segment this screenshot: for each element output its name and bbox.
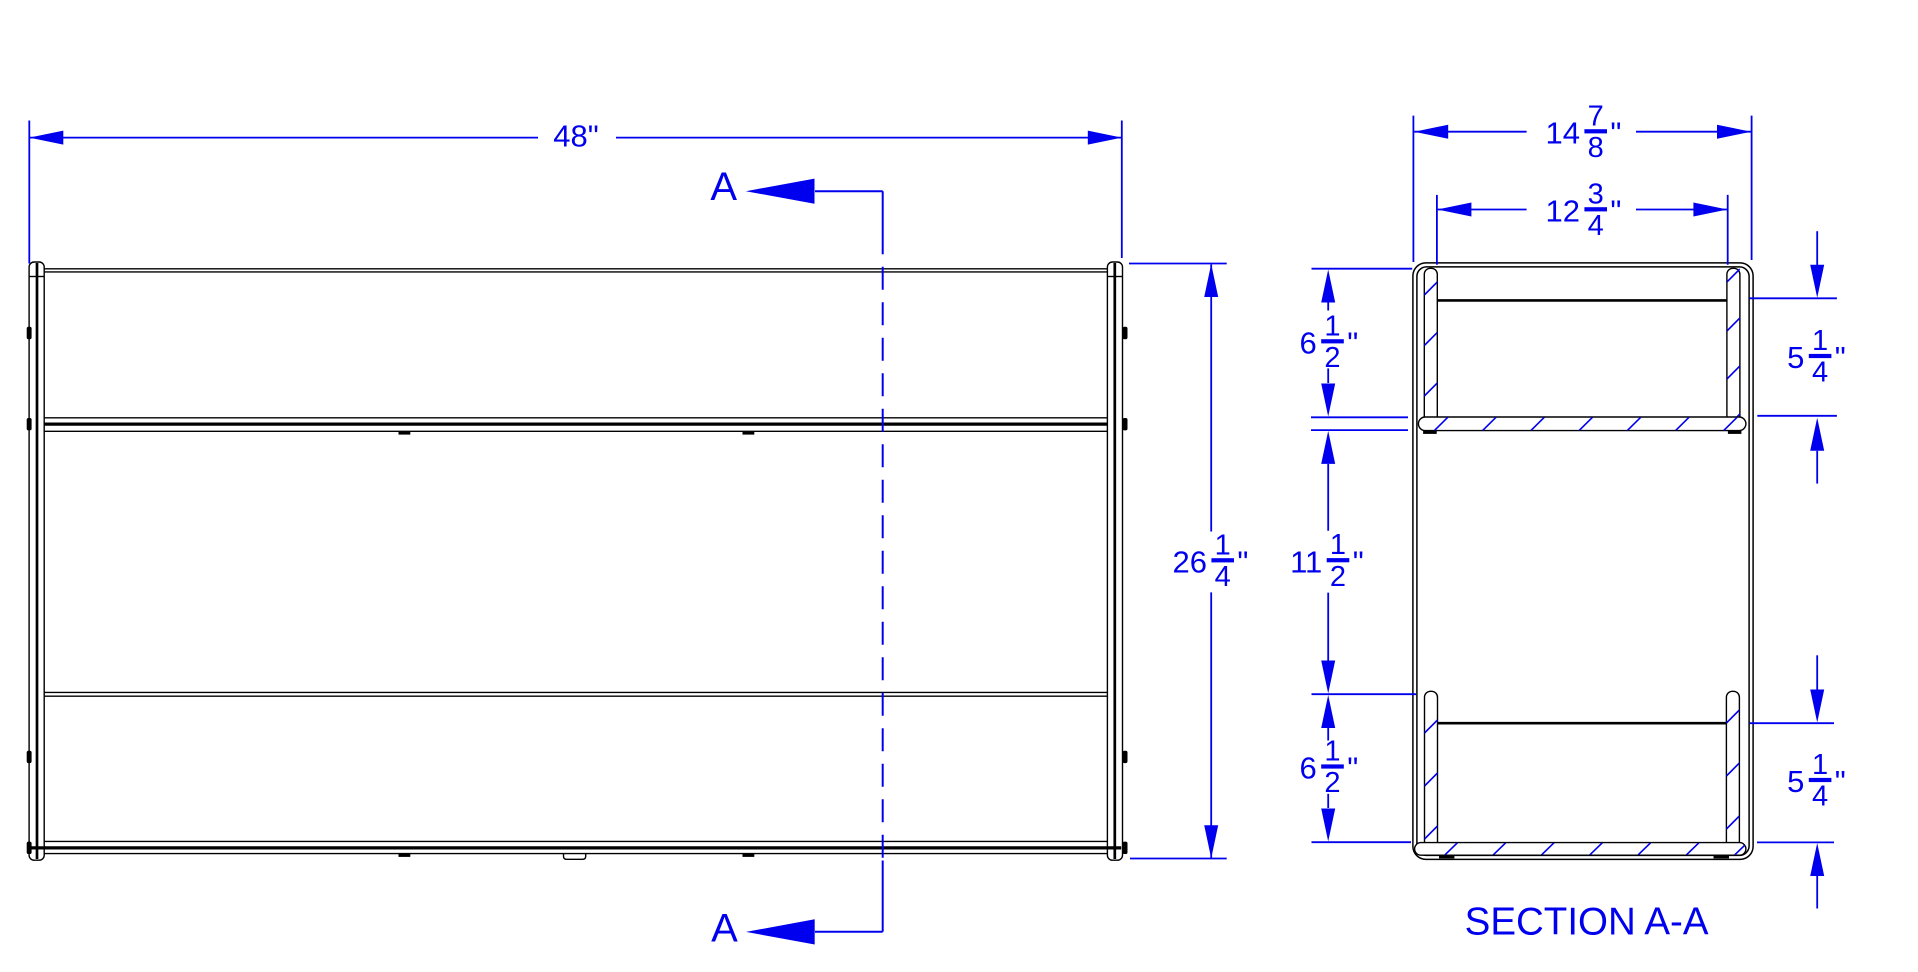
svg-text:8: 8: [1588, 132, 1604, 164]
svg-text:1: 1: [1812, 749, 1828, 781]
svg-text:1: 1: [1324, 310, 1340, 342]
svg-text:": ": [1835, 764, 1846, 799]
svg-text:A: A: [711, 907, 738, 951]
svg-text:11: 11: [1290, 544, 1322, 579]
svg-text:6: 6: [1300, 326, 1317, 361]
svg-text:5: 5: [1787, 764, 1804, 799]
svg-text:4: 4: [1588, 210, 1604, 242]
svg-text:1: 1: [1812, 325, 1828, 357]
svg-text:A: A: [710, 165, 737, 209]
svg-text:": ": [1237, 545, 1248, 580]
svg-text:4: 4: [1215, 561, 1231, 593]
svg-text:7: 7: [1588, 100, 1604, 132]
svg-text:2: 2: [1330, 561, 1346, 593]
svg-text:3: 3: [1588, 178, 1604, 210]
svg-text:4: 4: [1812, 357, 1828, 389]
svg-text:48": 48": [553, 118, 599, 153]
svg-text:6: 6: [1300, 751, 1317, 786]
svg-text:26: 26: [1173, 545, 1207, 580]
svg-text:2: 2: [1324, 342, 1340, 374]
svg-text:1: 1: [1324, 736, 1340, 768]
svg-text:": ": [1347, 326, 1358, 361]
svg-text:12: 12: [1546, 194, 1580, 229]
svg-text:14: 14: [1546, 116, 1580, 151]
svg-text:": ": [1347, 751, 1358, 786]
svg-text:": ": [1610, 194, 1621, 229]
svg-text:": ": [1835, 340, 1846, 375]
svg-text:1: 1: [1215, 529, 1231, 561]
svg-text:1: 1: [1330, 529, 1346, 561]
svg-text:2: 2: [1324, 767, 1340, 799]
svg-text:": ": [1353, 544, 1364, 579]
svg-text:4: 4: [1812, 781, 1828, 813]
svg-text:SECTION A-A: SECTION A-A: [1465, 900, 1709, 943]
svg-text:5: 5: [1787, 340, 1804, 375]
svg-text:": ": [1610, 116, 1621, 151]
